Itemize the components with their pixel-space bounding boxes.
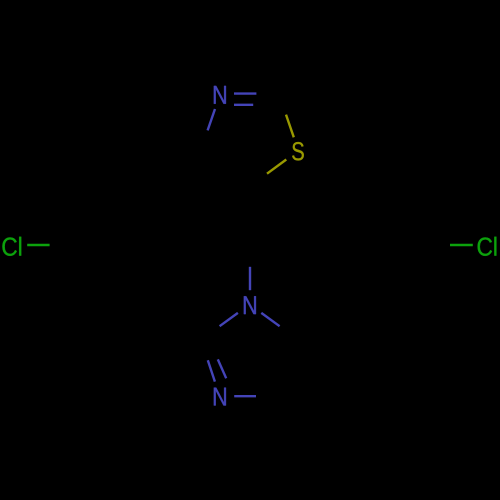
imidazole atom label N1	[244, 296, 256, 314]
right ring bond Cl-C4'' (chlorine half)	[450, 244, 473, 246]
left atom label Cl	[2, 237, 21, 256]
imidazole bond N1-C5 (blue half)	[261, 313, 279, 326]
imidazole bond C2=N3 double, inner line (blue half)	[218, 359, 226, 378]
thiazole atom label N3	[214, 86, 226, 104]
imidazole bond C2=N3 double, main line (blue half)	[208, 360, 215, 381]
thiazole bond N3=C2 double, inner line (blue half)	[234, 104, 253, 106]
thiazole bond S1-C5 (sulfur half)	[267, 160, 286, 174]
imidazole bond N1-C(central) (blue half)	[249, 267, 251, 290]
thiazole bond N3-C4 (blue half)	[208, 109, 215, 130]
right atom label Cl	[478, 237, 497, 256]
thiazole atom label S1	[292, 142, 304, 160]
imidazole bond N3-C4 (blue half)	[234, 395, 256, 397]
left ring bond Cl-C4' (chlorine half)	[27, 244, 49, 246]
imidazole bond N1-C2 (blue half)	[220, 313, 238, 326]
imidazole atom label N3	[214, 388, 226, 406]
thiazole bond N3=C2 double, main line (blue half)	[234, 92, 256, 94]
thiazole bond S1-C2 (sulfur half)	[286, 115, 294, 138]
